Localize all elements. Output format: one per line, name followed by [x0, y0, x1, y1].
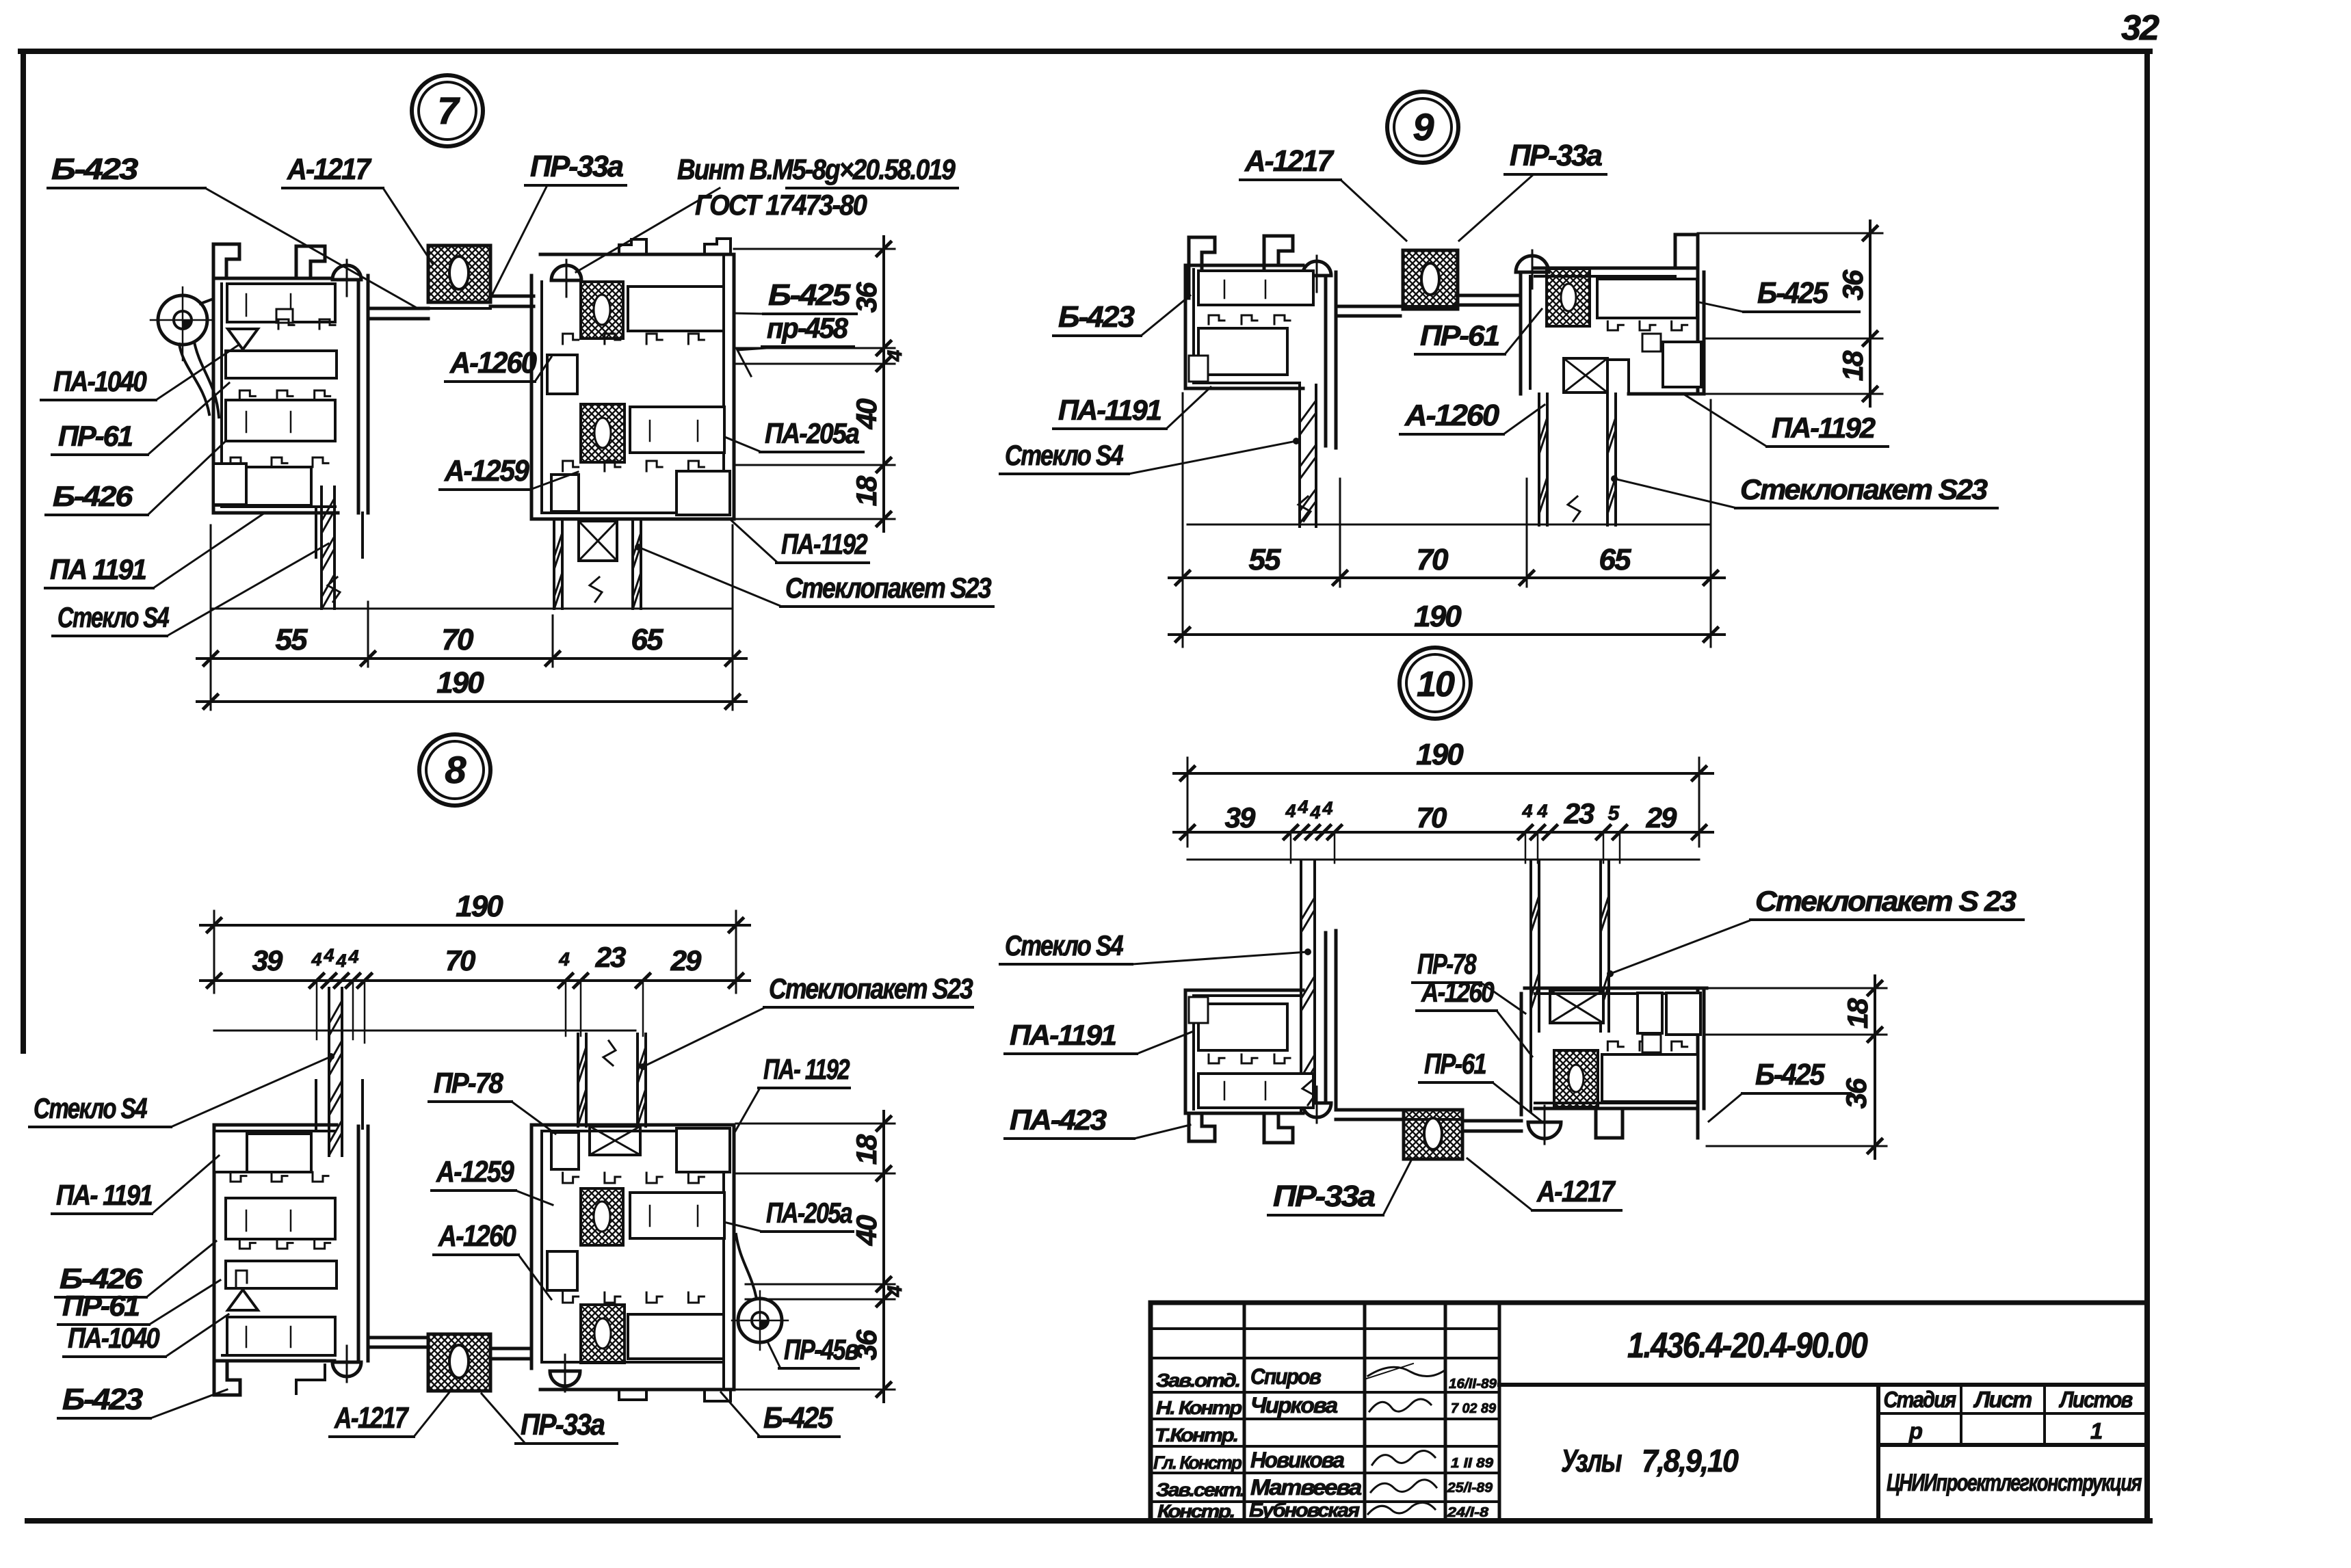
svg-text:ПР-61: ПР-61	[1424, 1048, 1486, 1080]
screw dome right d10	[1528, 1122, 1561, 1139]
svg-text:ПА-1192: ПА-1192	[781, 528, 867, 560]
right dimensions 36 18 d9	[1698, 232, 1882, 235]
svg-text:Б-425: Б-425	[768, 278, 851, 312]
profile right stack d10	[1525, 987, 1707, 990]
glazing bottom break line d7	[211, 608, 733, 610]
svg-text:ПА-205а: ПА-205а	[765, 417, 859, 449]
gasket ПР-33а d10	[1404, 1110, 1462, 1159]
svg-text:Стеклопакет S 23: Стеклопакет S 23	[1755, 885, 2017, 917]
svg-text:ПА 1191: ПА 1191	[50, 553, 146, 585]
bridge web А-1259 d9	[1336, 305, 1400, 308]
border frame left	[21, 51, 26, 1051]
svg-text:А-1260: А-1260	[1404, 399, 1500, 432]
svg-text:ПА- 1191: ПА- 1191	[56, 1179, 153, 1211]
svg-text:190: 190	[1416, 738, 1464, 771]
gasket ПР-33а d9	[1403, 250, 1458, 309]
gasket ПР-33а d8	[428, 1334, 490, 1391]
svg-text:ПА-205а: ПА-205а	[766, 1197, 852, 1229]
glazing extension verticals d8	[316, 981, 318, 1039]
border frame right	[2144, 51, 2150, 1521]
svg-text:40: 40	[850, 1215, 882, 1246]
signature squiggles	[1368, 1367, 1445, 1376]
gasket ПР-33а hatched d7	[428, 245, 490, 302]
extension lines d7	[210, 525, 212, 710]
title block signature rows	[1151, 1327, 1499, 1330]
svg-text:Чиркова: Чиркова	[1250, 1393, 1337, 1418]
screw dome on Б-423 d7	[332, 265, 361, 280]
svg-text:70: 70	[1417, 801, 1447, 834]
svg-text:Зав.отд.: Зав.отд.	[1156, 1370, 1239, 1391]
screw dome В.М5 d7	[551, 265, 581, 280]
svg-text:4: 4	[1521, 801, 1532, 821]
svg-text:Лист: Лист	[1973, 1387, 2032, 1412]
svg-text:29: 29	[1646, 801, 1677, 834]
svg-text:4: 4	[1285, 801, 1296, 821]
svg-text:А-1260: А-1260	[449, 346, 537, 380]
svg-text:65: 65	[631, 623, 664, 656]
svg-text:ПР-78: ПР-78	[434, 1067, 503, 1099]
svg-text:36: 36	[1837, 269, 1869, 300]
svg-text:Б-423: Б-423	[62, 1383, 143, 1416]
svg-text:4: 4	[1322, 798, 1332, 819]
svg-text:Б-423: Б-423	[51, 152, 138, 186]
V-clip ПА-1040 d7	[228, 329, 258, 349]
glass Стекло S4 d7	[320, 487, 323, 609]
profile right stack d9	[1535, 267, 1698, 270]
profile Б-425 right stack outline d7	[540, 253, 734, 256]
bridge web bottom d8	[368, 1336, 428, 1340]
svg-text:ПР-78: ПР-78	[1417, 948, 1477, 980]
detail 7 circle	[412, 75, 483, 146]
V-clip d8	[228, 1290, 258, 1310]
svg-text:ПА-1191: ПА-1191	[1010, 1019, 1116, 1051]
svg-text:ГОСТ 17473-80: ГОСТ 17473-80	[695, 189, 867, 221]
svg-text:Узлы: Узлы	[1561, 1443, 1622, 1478]
extension lines d9	[1182, 393, 1184, 647]
svg-text:ЦНИИпроектлегконструкция: ЦНИИпроектлегконструкция	[1887, 1470, 2142, 1496]
svg-text:4: 4	[323, 945, 334, 966]
svg-text:Б-426: Б-426	[53, 480, 133, 512]
chamber 1 Б-423 d7	[227, 284, 335, 322]
upper chambers d10	[1638, 993, 1662, 1033]
svg-text:ПА-1192: ПА-1192	[1772, 412, 1876, 444]
svg-text:18: 18	[1837, 350, 1869, 381]
svg-text:ПА-1040: ПА-1040	[53, 365, 146, 397]
svg-text:7,8,9,10: 7,8,9,10	[1642, 1443, 1739, 1478]
chambers left stack d9	[1198, 271, 1313, 305]
gasket block lower d7	[581, 404, 625, 462]
glass Стекло S4 d8	[328, 988, 330, 1156]
svg-text:Спиров: Спиров	[1250, 1364, 1322, 1389]
svg-text:55: 55	[276, 623, 308, 656]
svg-text:ПР-61: ПР-61	[58, 420, 133, 452]
svg-text:65: 65	[1599, 543, 1631, 576]
glazing extension verticals d10	[1290, 832, 1292, 863]
Стеклопакет S23 d10	[1529, 862, 1532, 1031]
chambers left stack d10	[1198, 1074, 1313, 1108]
bridge web d10	[1336, 1108, 1404, 1112]
bridge web А-1259 d7	[368, 307, 428, 310]
chamber 2 Б-426 d7	[226, 351, 337, 378]
svg-text:10: 10	[1417, 665, 1455, 704]
gasket lower d8	[581, 1305, 625, 1363]
svg-text:Б-425: Б-425	[1755, 1058, 1825, 1091]
lower chamber d9	[1663, 342, 1701, 387]
svg-text:А-1260: А-1260	[1421, 976, 1494, 1008]
svg-text:Б-425: Б-425	[763, 1401, 833, 1435]
svg-text:4: 4	[1297, 797, 1308, 817]
svg-text:пр-458: пр-458	[767, 312, 849, 344]
dimension 55 70 65 d9	[1169, 576, 1724, 579]
svg-text:Б-425: Б-425	[1757, 276, 1828, 310]
glass channel below Б-423 d7	[315, 509, 317, 557]
chamber small left d7	[547, 355, 577, 394]
svg-text:39: 39	[1225, 801, 1256, 834]
dimension 190 d9	[1169, 633, 1724, 636]
chamber Б-425 d9	[1597, 279, 1697, 318]
svg-text:8: 8	[445, 748, 467, 791]
svg-text:70: 70	[1417, 543, 1449, 576]
svg-text:Зав.сект.: Зав.сект.	[1156, 1479, 1244, 1500]
svg-text:24/I-8: 24/I-8	[1447, 1505, 1489, 1520]
svg-text:18: 18	[850, 475, 882, 506]
detail 10 circle	[1400, 648, 1471, 719]
glass channel above d8	[315, 1080, 317, 1128]
svg-text:16/II-89: 16/II-89	[1449, 1377, 1497, 1392]
svg-text:А-1217: А-1217	[1244, 144, 1335, 178]
svg-text:Стекло S4: Стекло S4	[1005, 929, 1123, 961]
svg-text:190: 190	[456, 890, 503, 923]
dimension 55 70 65 d7	[197, 657, 746, 660]
svg-text:9: 9	[1413, 105, 1434, 148]
svg-text:Новикова: Новикова	[1250, 1448, 1344, 1472]
border frame bottom	[27, 1518, 2150, 1524]
svg-text:4: 4	[1309, 802, 1320, 823]
roller handle right d8	[738, 1299, 782, 1342]
profile left stack outline d8	[214, 1124, 337, 1127]
svg-text:7 02 89: 7 02 89	[1451, 1401, 1497, 1416]
chamber ПА-205а d8	[630, 1193, 724, 1238]
svg-text:Винт В.М5-8g×20.58.019: Винт В.М5-8g×20.58.019	[677, 153, 956, 185]
spacer x-box d7	[579, 521, 617, 561]
gasket in right stack d9	[1547, 269, 1590, 326]
svg-text:4: 4	[884, 1285, 906, 1297]
title block signature columns	[1243, 1303, 1246, 1521]
svg-text:190: 190	[436, 666, 484, 700]
svg-text:1.436.4-20.4-90.00: 1.436.4-20.4-90.00	[1627, 1326, 1868, 1366]
chamber small left d8	[547, 1251, 577, 1290]
gasket in right stack d10	[1554, 1050, 1598, 1107]
glazing end line d9	[1187, 524, 1711, 526]
svg-text:4: 4	[558, 948, 570, 970]
svg-text:ПА-423: ПА-423	[1010, 1104, 1107, 1136]
spacer x-box d10	[1550, 990, 1603, 1023]
svg-text:18: 18	[850, 1134, 882, 1165]
gasket upper d8	[581, 1188, 623, 1245]
spacer x-box d8	[590, 1126, 640, 1155]
svg-text:25/I-89: 25/I-89	[1447, 1480, 1493, 1496]
svg-text:Стеклопакет S23: Стеклопакет S23	[1740, 473, 1988, 505]
svg-text:А-1217: А-1217	[1536, 1175, 1616, 1208]
Стеклопакет S23 d7	[553, 521, 555, 609]
chamber 3 d7	[226, 400, 335, 441]
svg-text:Стадия: Стадия	[1884, 1387, 1956, 1412]
svg-text:Т.Контр.: Т.Контр.	[1155, 1424, 1237, 1446]
svg-text:ПА-1040: ПА-1040	[68, 1322, 159, 1354]
profile ПА-423 left stack d10	[1185, 989, 1303, 992]
svg-text:7: 7	[437, 89, 460, 132]
svg-text:4: 4	[347, 946, 358, 967]
svg-text:29: 29	[670, 944, 702, 976]
svg-text:ПР-45в: ПР-45в	[784, 1333, 858, 1366]
svg-text:Стекло S4: Стекло S4	[57, 601, 169, 633]
svg-text:Листов: Листов	[2059, 1387, 2133, 1412]
detail 8 circle	[419, 734, 490, 806]
svg-text:ПА- 1192: ПА- 1192	[763, 1053, 850, 1085]
svg-text:Гл. Констр: Гл. Констр	[1153, 1452, 1242, 1473]
svg-text:Стеклопакет S23: Стеклопакет S23	[769, 972, 973, 1005]
svg-text:70: 70	[442, 623, 474, 656]
svg-text:А-1259: А-1259	[436, 1155, 514, 1188]
detail 9 circle	[1387, 92, 1458, 163]
svg-text:р: р	[1908, 1418, 1923, 1444]
screw dome right d9	[1516, 256, 1549, 272]
chamber 4 d7	[215, 467, 311, 505]
svg-text:190: 190	[1414, 600, 1462, 633]
svg-text:ПР-33а: ПР-33а	[521, 1408, 605, 1441]
svg-text:ПР-61: ПР-61	[62, 1290, 140, 1322]
svg-text:39: 39	[252, 944, 283, 976]
right dimensions 18 36 d10	[1707, 987, 1887, 989]
svg-text:Стеклопакет S23: Стеклопакет S23	[785, 572, 991, 604]
dimension 190 d7	[197, 700, 746, 703]
svg-text:ПА-1191: ПА-1191	[1058, 394, 1161, 426]
svg-text:А-1260: А-1260	[438, 1219, 516, 1253]
svg-text:1 II 89: 1 II 89	[1451, 1456, 1494, 1471]
svg-text:32: 32	[2121, 8, 2159, 48]
svg-text:ПР-33а: ПР-33а	[530, 150, 624, 183]
Стеклопакет S23 d8	[577, 1034, 579, 1126]
svg-text:23: 23	[595, 941, 626, 973]
chambers left stack d8	[215, 1134, 311, 1172]
svg-text:36: 36	[850, 282, 882, 313]
svg-text:Бубновская: Бубновская	[1249, 1500, 1360, 1522]
foot box d10	[1189, 997, 1208, 1023]
svg-text:Стекло S4: Стекло S4	[1005, 439, 1123, 471]
chamber Б-425 d8	[628, 1314, 724, 1359]
title block right section lines	[1499, 1383, 2147, 1387]
gasket block upper d7	[581, 282, 623, 338]
title block frame	[1151, 1301, 2147, 1305]
svg-text:4: 4	[311, 949, 321, 970]
profile Б-423 left stack outline d7	[213, 244, 239, 280]
profile Б-423 left stack d9	[1189, 237, 1215, 298]
Стеклопакет S23 d9	[1538, 394, 1540, 525]
glass Стекло S4 d10	[1300, 862, 1302, 1113]
chamber ПА-205а d7	[630, 407, 724, 453]
svg-text:А-1217: А-1217	[334, 1401, 409, 1435]
svg-text:А-1217: А-1217	[287, 152, 372, 186]
roller handle d7	[158, 295, 207, 345]
svg-text:Б-423: Б-423	[1058, 300, 1135, 334]
screw dome bottom right d8	[550, 1371, 580, 1386]
dimension 190 d10	[1187, 758, 1189, 847]
svg-text:70: 70	[445, 944, 475, 976]
chamber Б-425 d10	[1602, 1054, 1698, 1102]
svg-text:А-1259: А-1259	[444, 454, 529, 488]
spacer x-box d9	[1564, 358, 1607, 393]
svg-text:4: 4	[884, 349, 906, 362]
chamber ПА-1192 d7	[677, 471, 730, 515]
dome left stack d9	[1302, 261, 1331, 276]
svg-text:55: 55	[1249, 543, 1281, 576]
glass Стекло S4 d9	[1298, 385, 1301, 527]
right dimensions 18 40 4 36 d8	[736, 1123, 895, 1125]
chamber Б-425 d7	[628, 287, 724, 331]
svg-text:18: 18	[1841, 998, 1874, 1028]
dimension row 39 4444 70 4 23 29 d8	[200, 979, 750, 982]
reference line d10	[1187, 859, 1699, 861]
svg-text:Н. Контр: Н. Контр	[1156, 1397, 1242, 1418]
svg-text:4: 4	[1536, 801, 1547, 821]
dimension 190 d8	[213, 911, 215, 993]
dimension row d10	[1174, 831, 1713, 834]
svg-text:Стекло S4: Стекло S4	[34, 1092, 147, 1124]
svg-text:4: 4	[335, 951, 346, 971]
svg-text:1: 1	[2090, 1418, 2102, 1444]
border frame top	[21, 49, 2150, 54]
svg-text:23: 23	[1564, 797, 1594, 829]
foot box d9	[1189, 356, 1208, 382]
svg-text:ПР-33а: ПР-33а	[1273, 1180, 1376, 1213]
svg-text:Констр.: Констр.	[1157, 1501, 1235, 1522]
svg-text:Матвеева: Матвеева	[1250, 1475, 1361, 1500]
dome left stack d10	[1302, 1103, 1331, 1117]
reference line d8	[214, 1030, 635, 1032]
svg-text:ПР-33а: ПР-33а	[1510, 139, 1602, 172]
right dimensions 36 4 40 18 d7	[734, 248, 895, 250]
break marks on glazing	[328, 577, 340, 602]
chamber ПА-1192 d8	[677, 1128, 730, 1172]
profile right stack outline d8	[531, 1124, 734, 1127]
screw dome bottom d8	[332, 1362, 361, 1377]
svg-text:ПР-61: ПР-61	[1420, 319, 1499, 351]
